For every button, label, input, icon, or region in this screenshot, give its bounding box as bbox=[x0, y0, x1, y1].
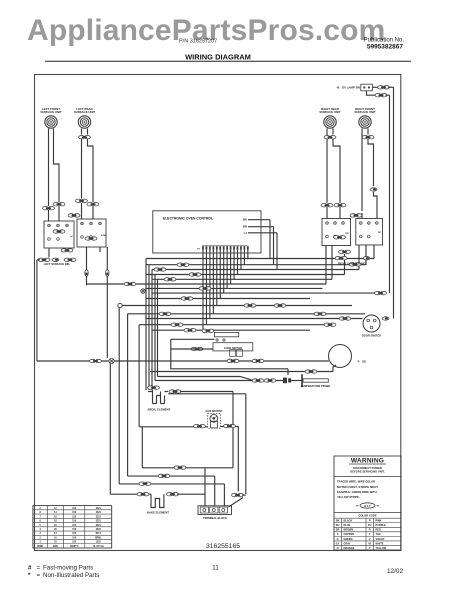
svg-text:T: T bbox=[369, 533, 371, 536]
svg-text:9: 9 bbox=[39, 508, 41, 510]
svg-text:11: 11 bbox=[212, 564, 219, 571]
svg-text:BR: BR bbox=[336, 529, 340, 532]
svg-text:LEFT SURFACE IND.: LEFT SURFACE IND. bbox=[44, 262, 71, 266]
svg-text:14: 14 bbox=[54, 532, 57, 535]
svg-text:YELLOW: YELLOW bbox=[376, 547, 387, 550]
svg-text:14: 14 bbox=[54, 511, 57, 514]
svg-text:WIRING DIAGRAM: WIRING DIAGRAM bbox=[185, 53, 251, 62]
svg-text:TEMPERATURE PROBE: TEMPERATURE PROBE bbox=[301, 384, 331, 388]
svg-text:6: 6 bbox=[39, 521, 41, 523]
svg-text:FAN MOTOR: FAN MOTOR bbox=[206, 409, 223, 413]
svg-text:O: O bbox=[337, 547, 339, 550]
svg-text:=: = bbox=[37, 564, 41, 571]
svg-text:2: 2 bbox=[39, 537, 41, 539]
svg-text:SURFACE UNIT: SURFACE UNIT bbox=[354, 110, 376, 114]
svg-text:G: G bbox=[337, 538, 339, 541]
svg-text:3321: 3321 bbox=[96, 525, 102, 527]
svg-text:VIOLET: VIOLET bbox=[376, 538, 386, 541]
svg-text:AWG: AWG bbox=[53, 545, 59, 548]
svg-text:18: 18 bbox=[54, 525, 57, 527]
svg-text:PURPLE: PURPLE bbox=[376, 524, 386, 527]
svg-text:COPPER: COPPER bbox=[344, 533, 355, 536]
svg-text:BU: BU bbox=[336, 524, 340, 527]
svg-text:BK: BK bbox=[243, 218, 247, 222]
svg-text:5995382867: 5995382867 bbox=[367, 43, 404, 50]
svg-text:Y: Y bbox=[369, 547, 371, 550]
svg-text:105: 105 bbox=[72, 537, 77, 539]
svg-text:ELECTRONIC OVEN CONTROL: ELECTRONIC OVEN CONTROL bbox=[163, 217, 213, 221]
svg-text:*: * bbox=[28, 572, 31, 579]
svg-text:W: W bbox=[369, 542, 372, 545]
svg-text:GRAY: GRAY bbox=[344, 542, 351, 545]
svg-text:105: 105 bbox=[72, 525, 77, 527]
svg-text:RF: RF bbox=[378, 232, 382, 234]
svg-text:BROWN: BROWN bbox=[344, 529, 354, 532]
svg-text:SRML: SRML bbox=[95, 537, 102, 539]
svg-text:WHITE: WHITE bbox=[376, 542, 384, 545]
svg-text:TAN: TAN bbox=[376, 533, 381, 536]
svg-text:PU: PU bbox=[368, 524, 372, 527]
svg-text:TERMINAL BLOCK: TERMINAL BLOCK bbox=[203, 516, 227, 520]
svg-text:18: 18 bbox=[54, 521, 57, 523]
svg-text:BLUE: BLUE bbox=[344, 524, 351, 527]
svg-text:DOOR SWITCH: DOOR SWITCH bbox=[362, 334, 381, 338]
svg-text:C: C bbox=[337, 533, 339, 536]
svg-text:150: 150 bbox=[72, 529, 77, 531]
svg-text:18: 18 bbox=[54, 542, 57, 544]
svg-text:UL STYLE: UL STYLE bbox=[93, 546, 105, 548]
svg-text:RR: RR bbox=[345, 233, 349, 235]
svg-text:L1: L1 bbox=[244, 231, 248, 235]
svg-text:GREEN: GREEN bbox=[344, 538, 353, 541]
svg-text:3: 3 bbox=[39, 533, 41, 535]
svg-text:BK: BK bbox=[336, 520, 340, 523]
svg-text:R: R bbox=[369, 529, 371, 532]
svg-text:✳: ✳ bbox=[357, 360, 361, 364]
svg-text:SURFACE UNIT: SURFACE UNIT bbox=[319, 110, 341, 114]
svg-text:ORANGE: ORANGE bbox=[344, 547, 355, 550]
svg-text:316255165: 316255165 bbox=[206, 543, 240, 550]
svg-text:LOCK MOTOR: LOCK MOTOR bbox=[224, 346, 242, 350]
svg-text:7: 7 bbox=[39, 516, 41, 518]
svg-text:V: V bbox=[369, 538, 371, 541]
svg-text:3321: 3321 bbox=[96, 512, 102, 514]
svg-text:105: 105 bbox=[72, 542, 77, 544]
svg-text:3321: 3321 bbox=[96, 516, 102, 518]
svg-text:COLOR CODE: COLOR CODE bbox=[358, 514, 376, 518]
svg-text:20: 20 bbox=[54, 529, 57, 531]
svg-text:P1: P1 bbox=[197, 249, 200, 251]
svg-text:TEMP°C: TEMP°C bbox=[70, 546, 79, 548]
svg-text:TRACER WIRE: WIRE COLOR: TRACER WIRE: WIRE COLOR bbox=[337, 480, 375, 484]
svg-text:1015: 1015 bbox=[96, 542, 102, 544]
svg-text:BLACK: BLACK bbox=[344, 520, 353, 523]
svg-text:P/N 316257207: P/N 316257207 bbox=[179, 39, 217, 45]
svg-text:WIRE: WIRE bbox=[37, 546, 43, 548]
svg-text:Fast-moving Parts: Fast-moving Parts bbox=[43, 564, 93, 571]
svg-text:16: 16 bbox=[54, 516, 57, 518]
svg-text:✳: ✳ bbox=[336, 85, 340, 90]
svg-text:4: 4 bbox=[39, 528, 41, 531]
svg-text:EXAMPLE: GREEN WIRE WITH: EXAMPLE: GREEN WIRE WITH bbox=[337, 490, 377, 494]
svg-text:RIGHT SURFACE IND.: RIGHT SURFACE IND. bbox=[338, 261, 366, 265]
svg-text:SR-5: SR-5 bbox=[96, 533, 102, 535]
svg-text:BAKE ELEMENT: BAKE ELEMENT bbox=[147, 511, 169, 515]
svg-text:150: 150 bbox=[72, 508, 77, 510]
svg-text:12: 12 bbox=[54, 508, 57, 510]
svg-text:SURFACE UNIT: SURFACE UNIT bbox=[74, 110, 96, 114]
svg-text:12/02: 12/02 bbox=[387, 568, 403, 575]
svg-text:LF: LF bbox=[70, 236, 73, 238]
svg-text:WARNING: WARNING bbox=[351, 458, 384, 465]
svg-text:150: 150 bbox=[72, 521, 77, 523]
svg-text:OV LAMP SW: OV LAMP SW bbox=[342, 86, 360, 90]
svg-text:P: P bbox=[369, 520, 371, 523]
svg-text:150: 150 bbox=[72, 512, 77, 514]
svg-text:YELLOW STRIPE.: YELLOW STRIPE. bbox=[337, 495, 360, 499]
svg-text:BEFORE SERVICING UNIT.: BEFORE SERVICING UNIT. bbox=[350, 470, 384, 474]
svg-text:GY: GY bbox=[336, 542, 340, 545]
svg-text:#: # bbox=[28, 564, 32, 571]
svg-text:3321: 3321 bbox=[96, 508, 102, 510]
svg-text:PINK: PINK bbox=[376, 520, 382, 523]
svg-text:RED: RED bbox=[376, 529, 381, 532]
svg-text:Non-Illustrated Parts: Non-Illustrated Parts bbox=[43, 572, 99, 579]
svg-text:=: = bbox=[37, 572, 41, 579]
svg-text:230B: 230B bbox=[101, 235, 107, 237]
svg-text:150: 150 bbox=[72, 516, 77, 518]
svg-text:16: 16 bbox=[54, 537, 57, 539]
svg-text:GY-Y: GY-Y bbox=[364, 504, 371, 508]
svg-text:3324: 3324 bbox=[96, 528, 102, 531]
svg-text:NOTED FIRST, STRIPE NEXT.: NOTED FIRST, STRIPE NEXT. bbox=[337, 485, 379, 489]
svg-text:DISCONNECT POWER: DISCONNECT POWER bbox=[353, 466, 382, 470]
svg-text:3321: 3321 bbox=[96, 521, 102, 523]
svg-text:8: 8 bbox=[39, 512, 41, 514]
svg-text:BR: BR bbox=[243, 225, 247, 229]
svg-text:SURFACE UNIT: SURFACE UNIT bbox=[40, 110, 62, 114]
svg-text:105: 105 bbox=[72, 533, 77, 535]
svg-text:1: 1 bbox=[39, 542, 41, 544]
svg-text:5: 5 bbox=[39, 525, 41, 527]
svg-text:OB: OB bbox=[362, 360, 366, 364]
svg-text:BROIL ELEMENT: BROIL ELEMENT bbox=[148, 407, 171, 411]
